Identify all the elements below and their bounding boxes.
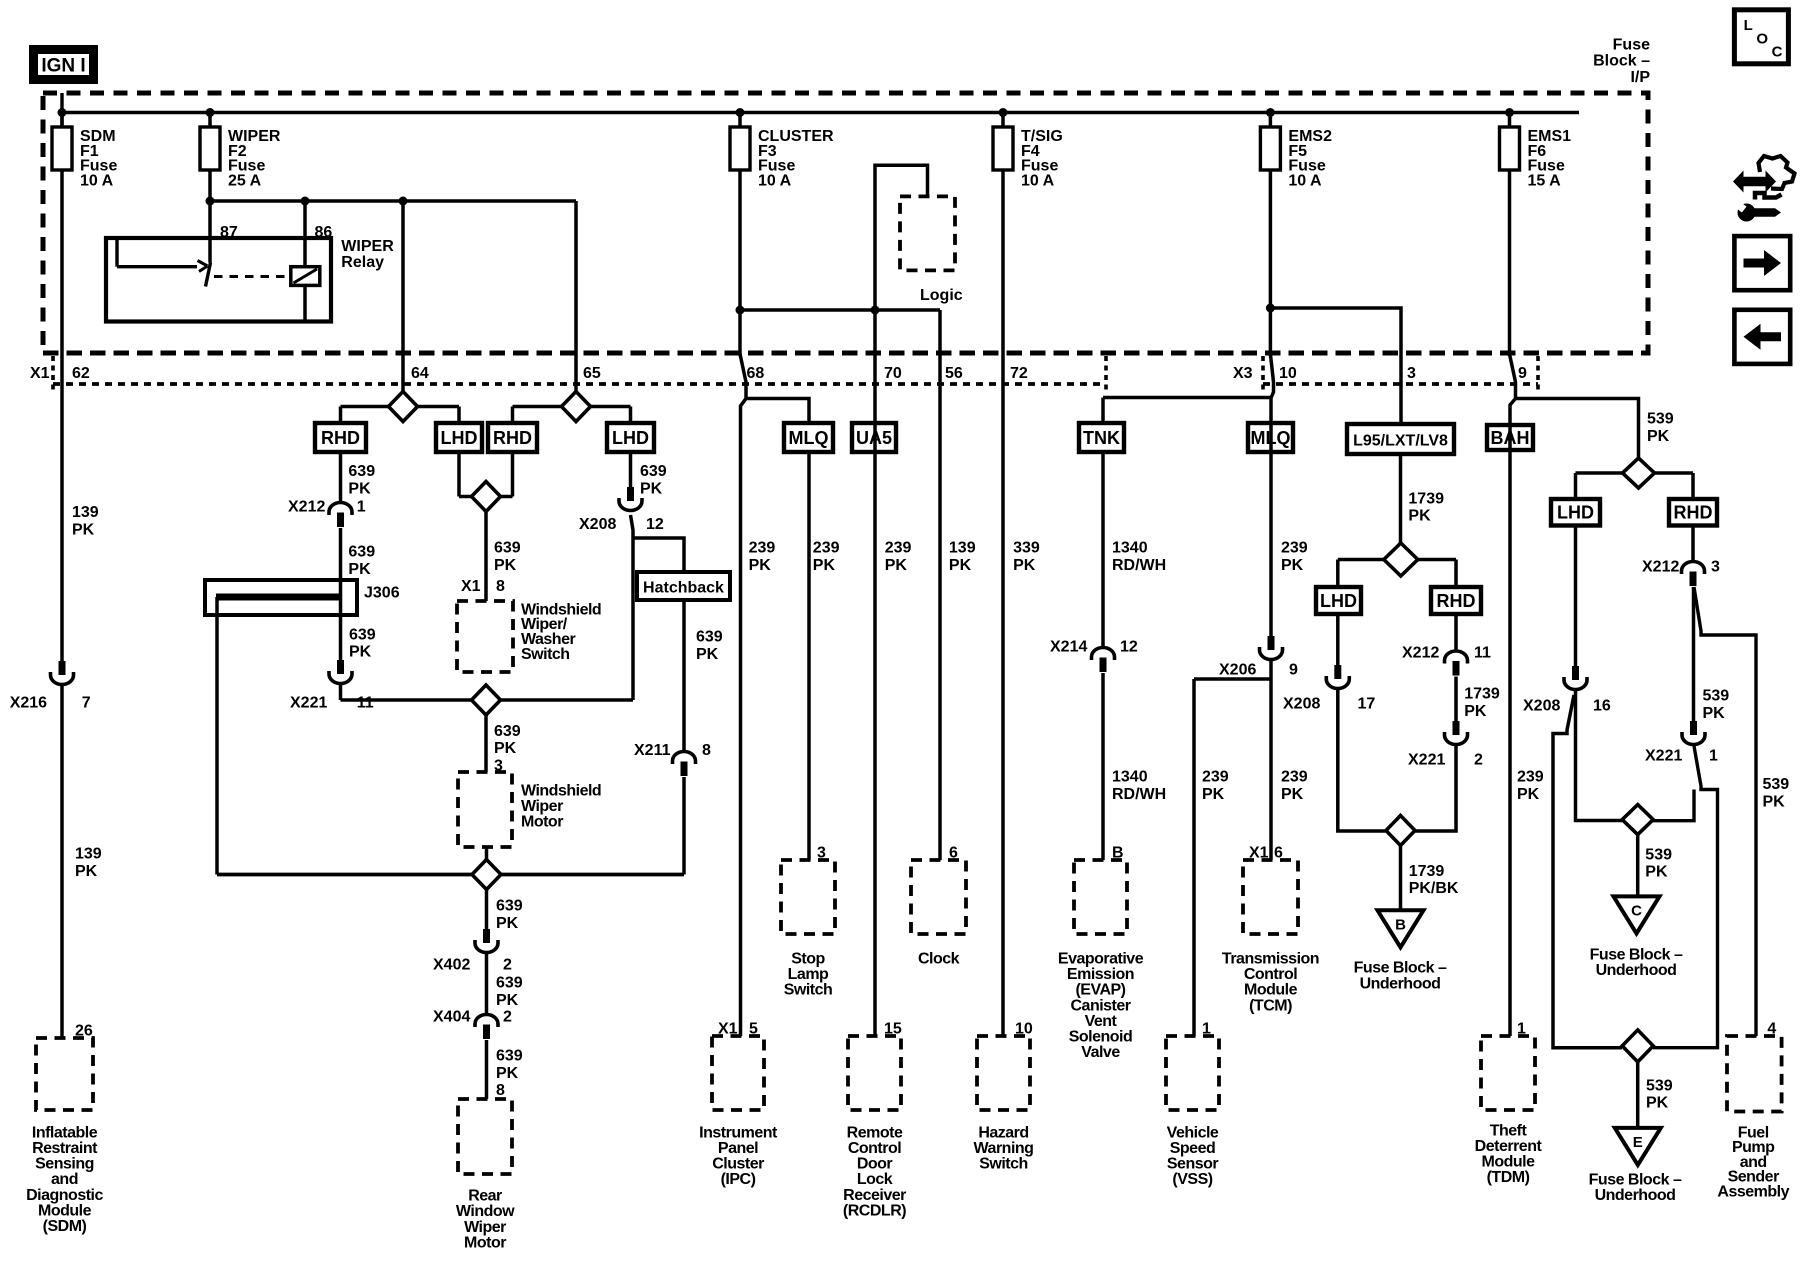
wire X208-12 drop	[631, 515, 634, 700]
connector row inner dotted line X1	[53, 382, 1106, 386]
svg-text:WIPER: WIPER	[341, 238, 394, 255]
svg-text:11: 11	[357, 695, 374, 712]
svg-text:Deterrent: Deterrent	[1475, 1138, 1543, 1155]
svg-text:64: 64	[411, 365, 429, 382]
wire 1739 PK	[1454, 677, 1458, 722]
svg-text:X216: X216	[10, 695, 47, 712]
svg-text:65: 65	[583, 365, 601, 382]
splice diamond E	[1622, 1030, 1653, 1062]
connector X214 pin 12	[1092, 648, 1115, 661]
svg-text:Motor: Motor	[464, 1234, 506, 1251]
wire branch to MLQ stop lamp	[746, 399, 809, 424]
svg-text:139: 139	[949, 540, 976, 557]
option box TNK	[1079, 423, 1124, 452]
row tick at 53	[51, 356, 55, 392]
svg-text:Module: Module	[1482, 1154, 1536, 1171]
svg-text:Underhood: Underhood	[1596, 962, 1677, 979]
clock dashed box	[911, 860, 966, 934]
relay actuation dashed link	[214, 275, 291, 278]
svg-text:PK: PK	[1408, 508, 1431, 525]
svg-text:B: B	[1395, 916, 1406, 933]
wire branch to hatchback	[633, 538, 684, 572]
svg-text:Fuse Block –: Fuse Block –	[1354, 960, 1447, 977]
wire EMS2 F5 output	[1269, 170, 1273, 356]
remote control door lock receiver dashed box	[848, 1036, 901, 1110]
triangle E fuse block underhood	[1615, 1128, 1661, 1165]
svg-text:X212: X212	[288, 499, 325, 516]
svg-text:Control: Control	[848, 1140, 901, 1157]
wire RHD4 to X212-3	[1691, 526, 1695, 562]
wire relay output 64	[401, 201, 405, 392]
svg-text:10: 10	[1279, 365, 1297, 382]
svg-text:Underhood: Underhood	[1595, 1187, 1676, 1204]
svg-text:Remote: Remote	[847, 1124, 903, 1141]
splice diamond C	[1622, 805, 1653, 835]
svg-text:9: 9	[1518, 365, 1527, 382]
svg-text:PK: PK	[885, 557, 908, 574]
svg-text:X221: X221	[1408, 751, 1445, 768]
wire 539 PK to triangle E	[1636, 1062, 1640, 1128]
wire LHD to diamond	[457, 452, 461, 497]
svg-text:Switch: Switch	[784, 982, 833, 999]
svg-text:X212: X212	[1642, 559, 1679, 576]
svg-text:IGN I: IGN I	[41, 56, 85, 77]
svg-text:639: 639	[640, 463, 667, 480]
svg-text:2: 2	[503, 957, 512, 974]
triangle B fuse block underhood	[1378, 910, 1424, 947]
svg-text:Solenoid: Solenoid	[1069, 1029, 1133, 1046]
svg-text:239: 239	[749, 540, 776, 557]
wire UA5 branch	[873, 310, 877, 1036]
svg-text:PK: PK	[1645, 864, 1668, 881]
svg-text:639: 639	[349, 626, 376, 643]
transmission control module dashed box	[1243, 860, 1298, 934]
IGN I power feed box	[34, 50, 94, 80]
service icon hand with arrows	[1733, 171, 1776, 193]
wire CLUSTER F3 output	[738, 170, 742, 356]
svg-text:15 A: 15 A	[1528, 172, 1562, 189]
svg-text:Assembly: Assembly	[1717, 1184, 1789, 1201]
svg-text:16: 16	[1593, 698, 1611, 715]
wire F2 output to relay header	[208, 170, 212, 263]
svg-text:639: 639	[348, 463, 375, 480]
svg-text:Inflatable: Inflatable	[32, 1124, 98, 1141]
svg-text:LHD: LHD	[1557, 503, 1594, 523]
wire motor to node	[485, 847, 489, 875]
svg-text:239: 239	[1202, 769, 1229, 786]
svg-text:(EVAP): (EVAP)	[1075, 982, 1125, 999]
svg-text:PK: PK	[1703, 705, 1726, 722]
wire EMS1 BAH branch	[1508, 170, 1512, 356]
option box BAH	[1487, 425, 1533, 450]
svg-text:Window: Window	[456, 1203, 515, 1220]
fuse F2 WIPER 25A	[208, 113, 212, 129]
svg-text:Lock: Lock	[857, 1171, 893, 1188]
svg-text:Instrument: Instrument	[699, 1124, 778, 1141]
svg-text:X221: X221	[1645, 747, 1682, 764]
svg-text:PK: PK	[1763, 794, 1786, 811]
svg-text:1739: 1739	[1464, 686, 1500, 703]
wire 639 PK through J306	[339, 528, 343, 660]
svg-text:56: 56	[945, 365, 963, 382]
wire kink at connector 68	[740, 354, 746, 1036]
relay pin 86 wire through coil	[303, 201, 307, 267]
option box LHD	[436, 423, 482, 452]
connector X208 pin 12	[627, 487, 634, 501]
svg-text:139: 139	[72, 504, 99, 521]
svg-text:3: 3	[1407, 365, 1416, 382]
wire J306 tap down	[215, 597, 219, 875]
svg-text:TNK: TNK	[1083, 428, 1120, 448]
wire diamond to wiper motor	[484, 715, 488, 772]
connector row inner dotted line X3	[1263, 382, 1538, 386]
wire 1340 RD/WH	[1101, 452, 1105, 647]
svg-text:539: 539	[1763, 776, 1790, 793]
option box RHD	[315, 423, 366, 452]
diamond node 700 overlay	[472, 685, 501, 715]
wire 639 PK from RHD	[339, 452, 343, 502]
wire 639 PK from LHD2	[629, 452, 633, 487]
connector X208 pin 17	[1334, 665, 1341, 679]
svg-text:Transmission: Transmission	[1222, 951, 1319, 968]
svg-text:Evaporative: Evaporative	[1058, 951, 1144, 968]
svg-text:Speed: Speed	[1170, 1140, 1216, 1157]
svg-text:539: 539	[1646, 1077, 1673, 1094]
svg-text:(SDM): (SDM)	[43, 1218, 87, 1235]
svg-text:UA5: UA5	[856, 428, 892, 448]
svg-text:L: L	[1744, 17, 1753, 34]
wire 1340 RD/WH to EVAP	[1101, 673, 1105, 860]
svg-text:Emission: Emission	[1067, 966, 1134, 983]
svg-text:7: 7	[82, 695, 91, 712]
svg-text:72: 72	[1010, 365, 1028, 382]
ignition bus wire	[60, 93, 63, 128]
svg-text:239: 239	[1517, 769, 1544, 786]
wire 639 PK to X402	[485, 890, 489, 930]
logic dashed box	[900, 196, 955, 270]
wire 1739 PK/BK	[1399, 846, 1403, 911]
LOC legend box	[1734, 10, 1788, 64]
svg-text:PK: PK	[1464, 703, 1487, 720]
triangle C fuse block underhood	[1614, 896, 1660, 933]
svg-text:639: 639	[494, 540, 521, 557]
option box RHD 4	[1669, 499, 1717, 526]
svg-text:239: 239	[885, 540, 912, 557]
connector X402 pin 2	[483, 929, 490, 943]
svg-text:LHD: LHD	[441, 428, 478, 448]
connector X206 pin 9	[1268, 636, 1275, 650]
wire LHD4 to X208-16	[1574, 526, 1578, 667]
svg-text:PK: PK	[494, 557, 517, 574]
svg-text:Switch: Switch	[521, 646, 570, 663]
svg-text:X208: X208	[1523, 698, 1560, 715]
connector X212 pin 11	[1445, 651, 1468, 664]
svg-text:Hatchback: Hatchback	[643, 579, 724, 596]
legend arrow right box	[1734, 236, 1790, 290]
wire RHD3 to X212-11	[1454, 614, 1458, 651]
evap canister vent solenoid dashed box	[1074, 860, 1127, 934]
splice diamond 539	[1623, 458, 1655, 488]
svg-text:86: 86	[315, 224, 333, 241]
svg-text:Relay: Relay	[341, 254, 384, 271]
splice diamond B	[1386, 816, 1415, 846]
wire branch to fuel pump	[1694, 587, 1756, 1036]
svg-text:X214: X214	[1050, 639, 1087, 656]
fuse F4 T/SIG 10A	[1001, 113, 1005, 129]
fuel pump sender dashed box	[1727, 1036, 1782, 1112]
svg-text:RD/WH: RD/WH	[1112, 557, 1166, 574]
svg-text:10 A: 10 A	[758, 172, 792, 189]
svg-text:Module: Module	[1244, 982, 1298, 999]
svg-text:1: 1	[357, 499, 366, 516]
relay internal fixed contact	[115, 240, 118, 267]
svg-text:Theft: Theft	[1490, 1122, 1528, 1139]
option box RHD 2	[488, 423, 537, 452]
svg-text:X404: X404	[433, 1009, 470, 1026]
svg-text:87: 87	[220, 224, 238, 241]
svg-text:PK: PK	[1013, 557, 1036, 574]
svg-text:Block –: Block –	[1593, 53, 1650, 70]
fuse F6 EMS1 15A	[1508, 113, 1512, 129]
connector X221 pin 11	[337, 660, 344, 674]
svg-text:Fuse: Fuse	[1613, 36, 1650, 53]
connector X221 pin 2	[1453, 721, 1460, 735]
svg-text:639: 639	[696, 629, 723, 646]
svg-text:PK: PK	[696, 646, 719, 663]
svg-text:Sensor: Sensor	[1167, 1156, 1219, 1173]
svg-text:539: 539	[1645, 846, 1672, 863]
wire branch to 539 diamond	[1516, 399, 1639, 459]
svg-text:70: 70	[884, 365, 902, 382]
wire 339 PK hazard feed	[1001, 170, 1005, 1036]
splice diamond 65	[562, 392, 591, 422]
svg-text:639: 639	[496, 1048, 523, 1065]
svg-text:10 A: 10 A	[80, 172, 114, 189]
svg-text:339: 339	[1013, 540, 1040, 557]
svg-text:639: 639	[494, 723, 521, 740]
svg-text:639: 639	[496, 898, 523, 915]
svg-text:639: 639	[348, 544, 375, 561]
svg-text:68: 68	[747, 365, 765, 382]
wire jog to fuse block E left	[1553, 695, 1622, 1048]
wire to TCM	[1269, 661, 1273, 860]
svg-text:PK: PK	[348, 561, 371, 578]
svg-text:PK: PK	[1517, 786, 1540, 803]
option box LHD 2	[607, 423, 654, 452]
svg-text:Fuse Block –: Fuse Block –	[1590, 947, 1683, 964]
svg-text:LHD: LHD	[1320, 591, 1357, 611]
svg-text:2: 2	[1474, 751, 1483, 768]
svg-text:PK: PK	[496, 992, 519, 1009]
svg-text:(TCM): (TCM)	[1249, 997, 1292, 1014]
connector X211 pin 8	[673, 752, 696, 765]
svg-text:Hazard: Hazard	[978, 1124, 1028, 1141]
windshield wiper motor dashed box	[458, 772, 512, 847]
svg-text:Warning: Warning	[974, 1140, 1034, 1157]
svg-text:Vent: Vent	[1085, 1013, 1118, 1030]
svg-text:9: 9	[1289, 662, 1298, 679]
svg-text:10 A: 10 A	[1021, 172, 1055, 189]
splice diamond 64	[389, 392, 418, 422]
svg-text:PK: PK	[1646, 1095, 1669, 1112]
svg-text:X1: X1	[30, 365, 50, 382]
svg-text:PK: PK	[1281, 557, 1304, 574]
theft deterrent module dashed box	[1481, 1036, 1535, 1110]
wire LHD3 to X208-17	[1336, 614, 1340, 665]
wire 639 PK to rear wiper motor	[485, 1040, 489, 1099]
svg-text:X211: X211	[634, 742, 671, 759]
wire horizontal node 874	[217, 873, 684, 877]
svg-text:X221: X221	[290, 695, 327, 712]
legend arrow left box	[1734, 310, 1790, 364]
svg-text:E: E	[1633, 1134, 1643, 1151]
svg-text:PK: PK	[949, 557, 972, 574]
svg-text:Logic: Logic	[920, 287, 963, 304]
fuse block I/P dashed border	[43, 93, 1648, 353]
svg-text:1: 1	[1709, 747, 1718, 764]
wire 56 to clock	[938, 310, 942, 860]
svg-text:RHD: RHD	[321, 428, 360, 448]
svg-text:RHD: RHD	[493, 428, 532, 448]
wire to fuse block C left	[1576, 691, 1623, 821]
vehicle speed sensor dashed box	[1166, 1036, 1219, 1110]
svg-text:PK: PK	[749, 557, 772, 574]
svg-text:62: 62	[72, 365, 90, 382]
option box LHD 3	[1316, 587, 1361, 614]
fuse F1 SDM 10A	[60, 113, 64, 129]
wire cluster horizontal to logic and clock	[740, 308, 940, 312]
wire RHD2 to diamond	[511, 452, 515, 497]
option box L95/LXT/LV8	[1347, 424, 1454, 454]
svg-text:X206: X206	[1219, 662, 1256, 679]
wire 639 PK hatchback to X211	[682, 600, 686, 751]
wire TNK branch	[1103, 396, 1271, 400]
svg-text:239: 239	[1281, 769, 1308, 786]
svg-text:Control: Control	[1244, 966, 1297, 983]
svg-text:239: 239	[1281, 540, 1308, 557]
wire X221-1 jog	[1653, 746, 1718, 1048]
connector X216 pin 7	[59, 661, 66, 675]
svg-text:1340: 1340	[1112, 769, 1148, 786]
row tick at 1106	[1104, 356, 1108, 392]
svg-text:X1: X1	[461, 578, 481, 595]
relay switch arm	[206, 263, 211, 287]
svg-text:539: 539	[1703, 687, 1730, 704]
svg-text:(IPC): (IPC)	[721, 1171, 756, 1188]
svg-text:Panel: Panel	[718, 1140, 758, 1157]
option box RHD 3	[1431, 587, 1481, 614]
fuse F5 EMS2 10A	[1269, 113, 1273, 129]
svg-text:RHD: RHD	[1437, 591, 1476, 611]
svg-text:PK: PK	[494, 740, 517, 757]
wire to splice diamond	[339, 685, 343, 700]
connector X212 pin 1	[329, 503, 352, 516]
option box MLQ 2	[1248, 423, 1293, 452]
hazard warning switch dashed box	[977, 1036, 1030, 1110]
connector X212 pin 3	[1682, 562, 1705, 575]
svg-text:PK: PK	[1647, 428, 1670, 445]
wire kink at connector 9	[1510, 354, 1516, 1036]
stop lamp switch dashed box	[781, 860, 835, 934]
svg-text:2: 2	[503, 1009, 512, 1026]
svg-text:PK: PK	[1281, 786, 1304, 803]
wire to fuse block underhood B left	[1338, 690, 1386, 831]
svg-text:C: C	[1772, 44, 1783, 61]
wire 539 PK to triangle C	[1636, 835, 1640, 897]
splice J306	[205, 580, 357, 615]
svg-text:539: 539	[1647, 411, 1674, 428]
svg-text:239: 239	[813, 540, 840, 557]
svg-text:Sensing: Sensing	[35, 1156, 94, 1173]
svg-text:10 A: 10 A	[1288, 172, 1322, 189]
wire horizontal node 700	[341, 698, 634, 702]
svg-text:X208: X208	[579, 516, 616, 533]
splice diamond L95	[1384, 543, 1418, 576]
svg-text:Switch: Switch	[979, 1156, 1028, 1173]
wire 139 PK to SDM	[60, 686, 64, 1038]
svg-text:Wiper: Wiper	[464, 1219, 506, 1236]
relay coil	[291, 267, 320, 286]
wire 239 PK stop lamp	[807, 452, 811, 860]
svg-text:Lamp: Lamp	[788, 966, 829, 983]
connector X208 pin 16	[1572, 666, 1579, 680]
fuse F3 CLUSTER 10A	[738, 113, 742, 129]
svg-text:PK: PK	[348, 480, 371, 497]
svg-text:C: C	[1631, 902, 1642, 919]
svg-text:11: 11	[1474, 645, 1491, 662]
svg-text:X208: X208	[1283, 696, 1320, 713]
svg-text:Underhood: Underhood	[1360, 975, 1441, 992]
svg-text:Canister: Canister	[1070, 997, 1130, 1014]
wire 639 PK to washer switch	[484, 512, 488, 602]
svg-text:(TDM): (TDM)	[1487, 1169, 1530, 1186]
svg-text:PK: PK	[349, 644, 372, 661]
hatchback option box	[637, 572, 730, 600]
svg-text:12: 12	[646, 516, 664, 533]
svg-text:Module: Module	[38, 1202, 92, 1219]
wire kink at connector 10	[1270, 354, 1273, 636]
svg-text:MLQ: MLQ	[789, 428, 829, 448]
windshield wiper washer switch dashed box	[457, 601, 513, 672]
svg-text:17: 17	[1358, 696, 1376, 713]
svg-text:8: 8	[496, 1082, 505, 1099]
svg-text:Clock: Clock	[918, 951, 960, 968]
svg-text:Diagnostic: Diagnostic	[26, 1187, 103, 1204]
splice diamond X1-8 feed	[472, 482, 501, 512]
svg-text:PK: PK	[496, 1065, 519, 1082]
wire branch to L95	[1270, 308, 1401, 424]
svg-text:3: 3	[1711, 559, 1720, 576]
wire 139 PK SDM feed	[60, 170, 64, 661]
svg-text:PK: PK	[75, 863, 98, 880]
wire X211 down	[682, 777, 686, 875]
svg-text:(VSS): (VSS)	[1172, 1171, 1212, 1188]
svg-text:1739: 1739	[1408, 490, 1444, 507]
svg-text:PK: PK	[72, 522, 95, 539]
row tick at 1538	[1536, 356, 1540, 392]
svg-text:8: 8	[702, 742, 711, 759]
svg-text:Windshield: Windshield	[521, 782, 601, 799]
svg-text:Receiver: Receiver	[843, 1187, 906, 1204]
instrument panel cluster dashed box	[712, 1036, 764, 1110]
connector row X1 dashed line	[43, 351, 1648, 356]
svg-text:25 A: 25 A	[228, 172, 262, 189]
svg-text:X212: X212	[1402, 645, 1439, 662]
svg-text:LHD: LHD	[612, 428, 649, 448]
row pin 64 wire arms	[341, 405, 389, 409]
svg-text:12: 12	[1120, 639, 1138, 656]
option box LHD 4	[1551, 499, 1600, 526]
